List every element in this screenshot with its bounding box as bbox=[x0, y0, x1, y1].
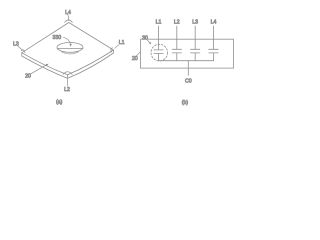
svg-text:30: 30 bbox=[142, 36, 148, 42]
notch L1 (right corner) bbox=[111, 48, 113, 52]
capacitor L4 plates bbox=[209, 49, 218, 53]
capacitor L2 plates bbox=[172, 49, 181, 53]
label C0 bbox=[185, 79, 192, 85]
leader L1 bbox=[115, 45, 119, 48]
wire stub to C0 terminal bbox=[187, 61, 189, 76]
leader L3 bbox=[18, 46, 23, 51]
plate 20 thickness edges bbox=[22, 50, 114, 78]
svg-text:20: 20 bbox=[132, 56, 138, 62]
wire L4 bbox=[213, 26, 215, 49]
label 20 (plate) bbox=[25, 74, 31, 80]
wire L3 to bus bbox=[194, 53, 196, 61]
wire L1 to bus bbox=[158, 54, 160, 61]
capacitor L3 plates bbox=[191, 49, 200, 53]
leader L4 bbox=[68, 15, 69, 21]
wire L4 to bus bbox=[213, 53, 215, 61]
svg-text:L1: L1 bbox=[156, 20, 162, 26]
wire L2 bbox=[176, 26, 178, 49]
label L2 (schematic) bbox=[174, 20, 180, 26]
wire L1 bbox=[158, 26, 160, 50]
notch L4 (top corner) bbox=[65, 20, 73, 22]
hole 330 inner chord bbox=[57, 48, 83, 50]
wire L3 bbox=[194, 26, 196, 49]
label L4 (schematic) bbox=[211, 20, 217, 26]
label 20 (schematic box) bbox=[132, 56, 138, 62]
label L3 bbox=[13, 41, 19, 47]
capacitor L1 plates bbox=[154, 50, 163, 54]
svg-text:330: 330 bbox=[52, 35, 61, 41]
dashed circle 30 around first capacitor bbox=[151, 44, 168, 61]
label L4 bbox=[65, 10, 71, 16]
svg-text:L1: L1 bbox=[119, 40, 125, 46]
leader L2 bbox=[66, 79, 68, 86]
svg-text:(b): (b) bbox=[182, 100, 189, 106]
notch L3 (left corner) bbox=[21, 50, 25, 53]
leader arrow 20 to plate edge bbox=[31, 64, 49, 74]
label L2 bbox=[64, 87, 70, 93]
hole 330 bottom arc bbox=[62, 52, 79, 54]
svg-text:L2: L2 bbox=[174, 20, 180, 26]
label 30 bbox=[142, 36, 148, 42]
caption (b) bbox=[182, 100, 189, 106]
hole 330 rim ellipse bbox=[57, 43, 83, 53]
label L1 bbox=[119, 40, 125, 46]
leader arrow 30 to dashed circle bbox=[147, 40, 151, 44]
enclosure box 20 (schematic) bbox=[141, 39, 234, 68]
notch L2 (bottom corner) bbox=[63, 72, 72, 75]
label 330 bbox=[52, 35, 61, 41]
common bus wire bbox=[159, 60, 214, 62]
leader from 330 to hole center bbox=[64, 37, 72, 47]
label L1 (schematic) bbox=[156, 20, 162, 26]
caption (a) bbox=[56, 100, 63, 106]
svg-text:C0: C0 bbox=[185, 79, 192, 85]
svg-text:L2: L2 bbox=[64, 87, 70, 93]
label L3 (schematic) bbox=[192, 20, 198, 26]
svg-text:(a): (a) bbox=[56, 100, 63, 106]
wire L2 to bus bbox=[176, 53, 178, 61]
leader 20 to box edge bbox=[136, 52, 140, 57]
svg-text:L4: L4 bbox=[211, 20, 217, 26]
plate 20 top face outline bbox=[22, 23, 114, 75]
svg-text:L3: L3 bbox=[192, 20, 198, 26]
svg-text:20: 20 bbox=[25, 74, 31, 80]
